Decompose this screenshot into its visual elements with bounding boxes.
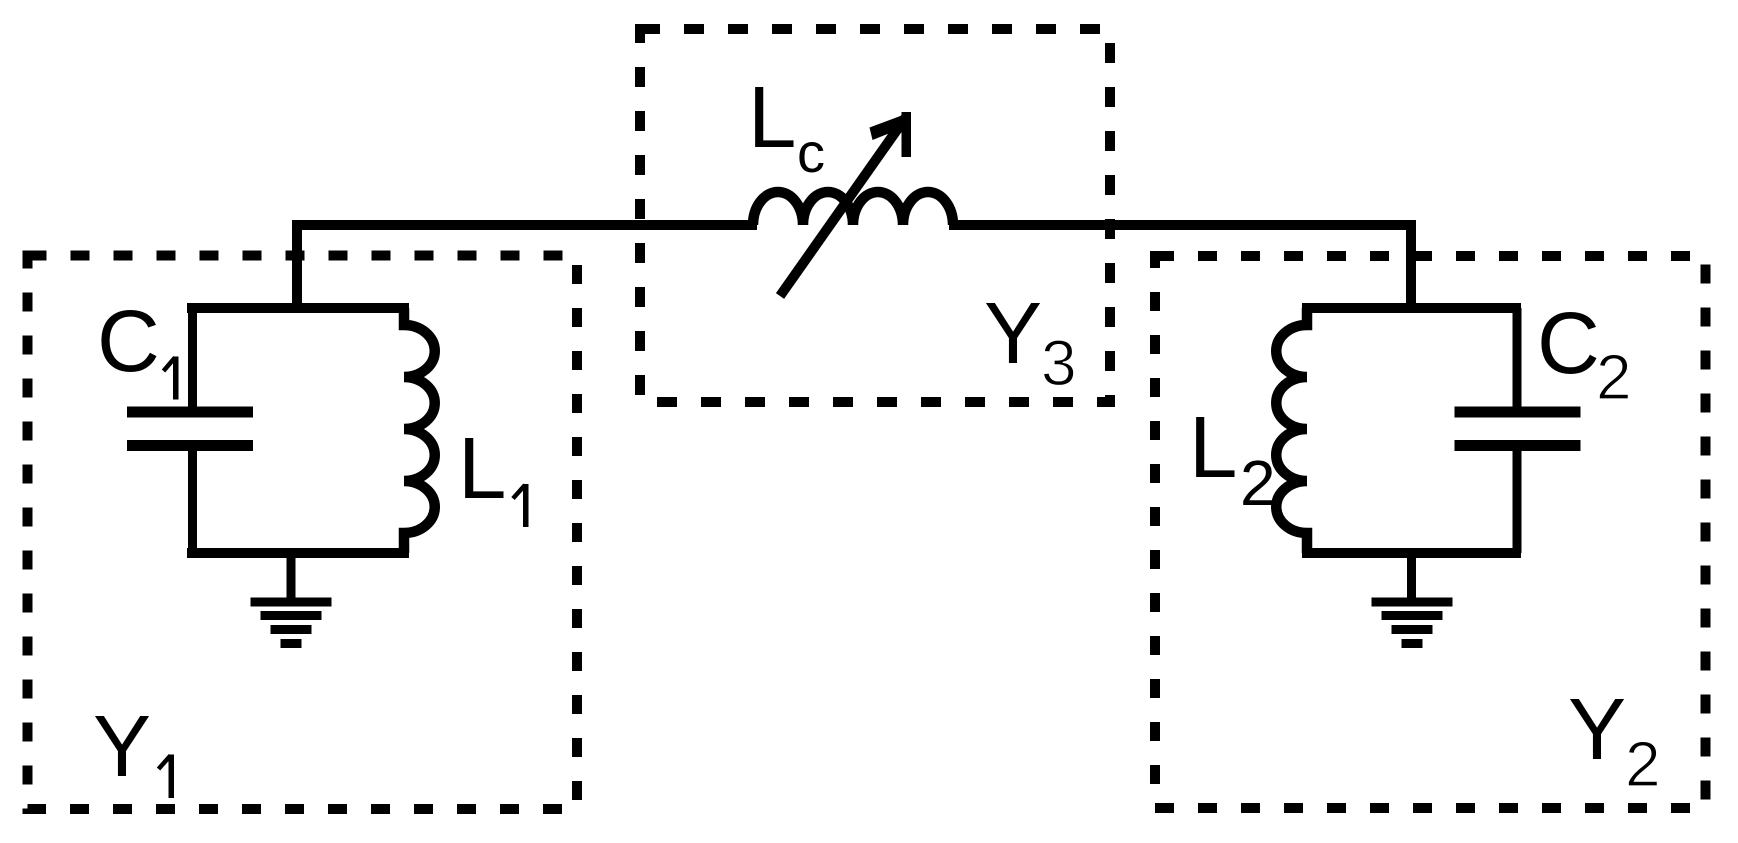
svg-text:2: 2 bbox=[1240, 447, 1276, 519]
svg-text:L: L bbox=[1189, 399, 1237, 496]
arrow shaft (variability arrow through Lc) bbox=[780, 117, 906, 296]
arrow head: right barb bbox=[902, 112, 912, 157]
tank Y1: bottom wire bbox=[187, 548, 409, 558]
svg-text:C: C bbox=[97, 293, 160, 390]
svg-text:Y: Y bbox=[984, 285, 1042, 382]
svg-text:3: 3 bbox=[1041, 327, 1077, 399]
ground G2 bar 3 bbox=[1392, 625, 1433, 634]
svg-text:c: c bbox=[797, 121, 825, 184]
svg-text:Y: Y bbox=[93, 698, 151, 795]
ground G2 bar 4 bbox=[1402, 639, 1423, 648]
inductor L1 (right branch of tank Y1, 4 arcs bulging right) bbox=[404, 308, 435, 553]
dashed box Y1 (admittance block Y1) bbox=[28, 256, 578, 810]
capacitor C2 branch: lower lead bbox=[1513, 445, 1522, 553]
capacitor C2 bottom plate bbox=[1455, 440, 1581, 451]
dashed box Y3 (admittance block Y3) bbox=[640, 29, 1110, 402]
tank Y2: bottom wire bbox=[1302, 548, 1521, 558]
ground G1 bar 1 bbox=[251, 598, 332, 607]
dashed box Y2 (admittance block Y2) bbox=[1155, 256, 1706, 808]
wire: left riser + top bus left segment bbox=[297, 225, 757, 311]
arrow head: left barb bbox=[870, 112, 912, 140]
ground G2: stem bbox=[1407, 550, 1416, 599]
ground G1 bar 3 bbox=[271, 625, 312, 634]
ground G1: stem bbox=[287, 550, 296, 599]
ground G2 bar 1 bbox=[1372, 598, 1453, 607]
ground G1 bar 2 bbox=[261, 611, 322, 620]
svg-text:2: 2 bbox=[1596, 341, 1632, 413]
inductor L2 (left branch of tank Y2, 4 arcs bulging left) bbox=[1276, 308, 1307, 553]
capacitor C1 branch: upper lead bbox=[188, 308, 197, 412]
capacitor C2 branch: upper lead bbox=[1513, 308, 1522, 412]
tank Y2: top wire bbox=[1302, 303, 1521, 313]
capacitor C1 top plate bbox=[127, 407, 253, 418]
capacitor C1 branch: lower lead bbox=[188, 445, 197, 553]
wire: top bus right segment + right riser bbox=[949, 225, 1411, 311]
inductor Lc (variable, 4 humps on top bus) bbox=[753, 192, 953, 225]
svg-text:L: L bbox=[748, 69, 796, 166]
capacitor C1 bottom plate bbox=[127, 440, 253, 451]
svg-text:L: L bbox=[458, 420, 506, 517]
capacitor C2 top plate bbox=[1455, 407, 1581, 418]
svg-text:Y: Y bbox=[1568, 681, 1626, 778]
ground G1 bar 4 bbox=[281, 639, 302, 648]
ground G2 bar 2 bbox=[1382, 611, 1443, 620]
svg-text:2: 2 bbox=[1625, 728, 1661, 800]
svg-text:C: C bbox=[1537, 295, 1600, 392]
tank Y1: top wire bbox=[187, 303, 409, 313]
